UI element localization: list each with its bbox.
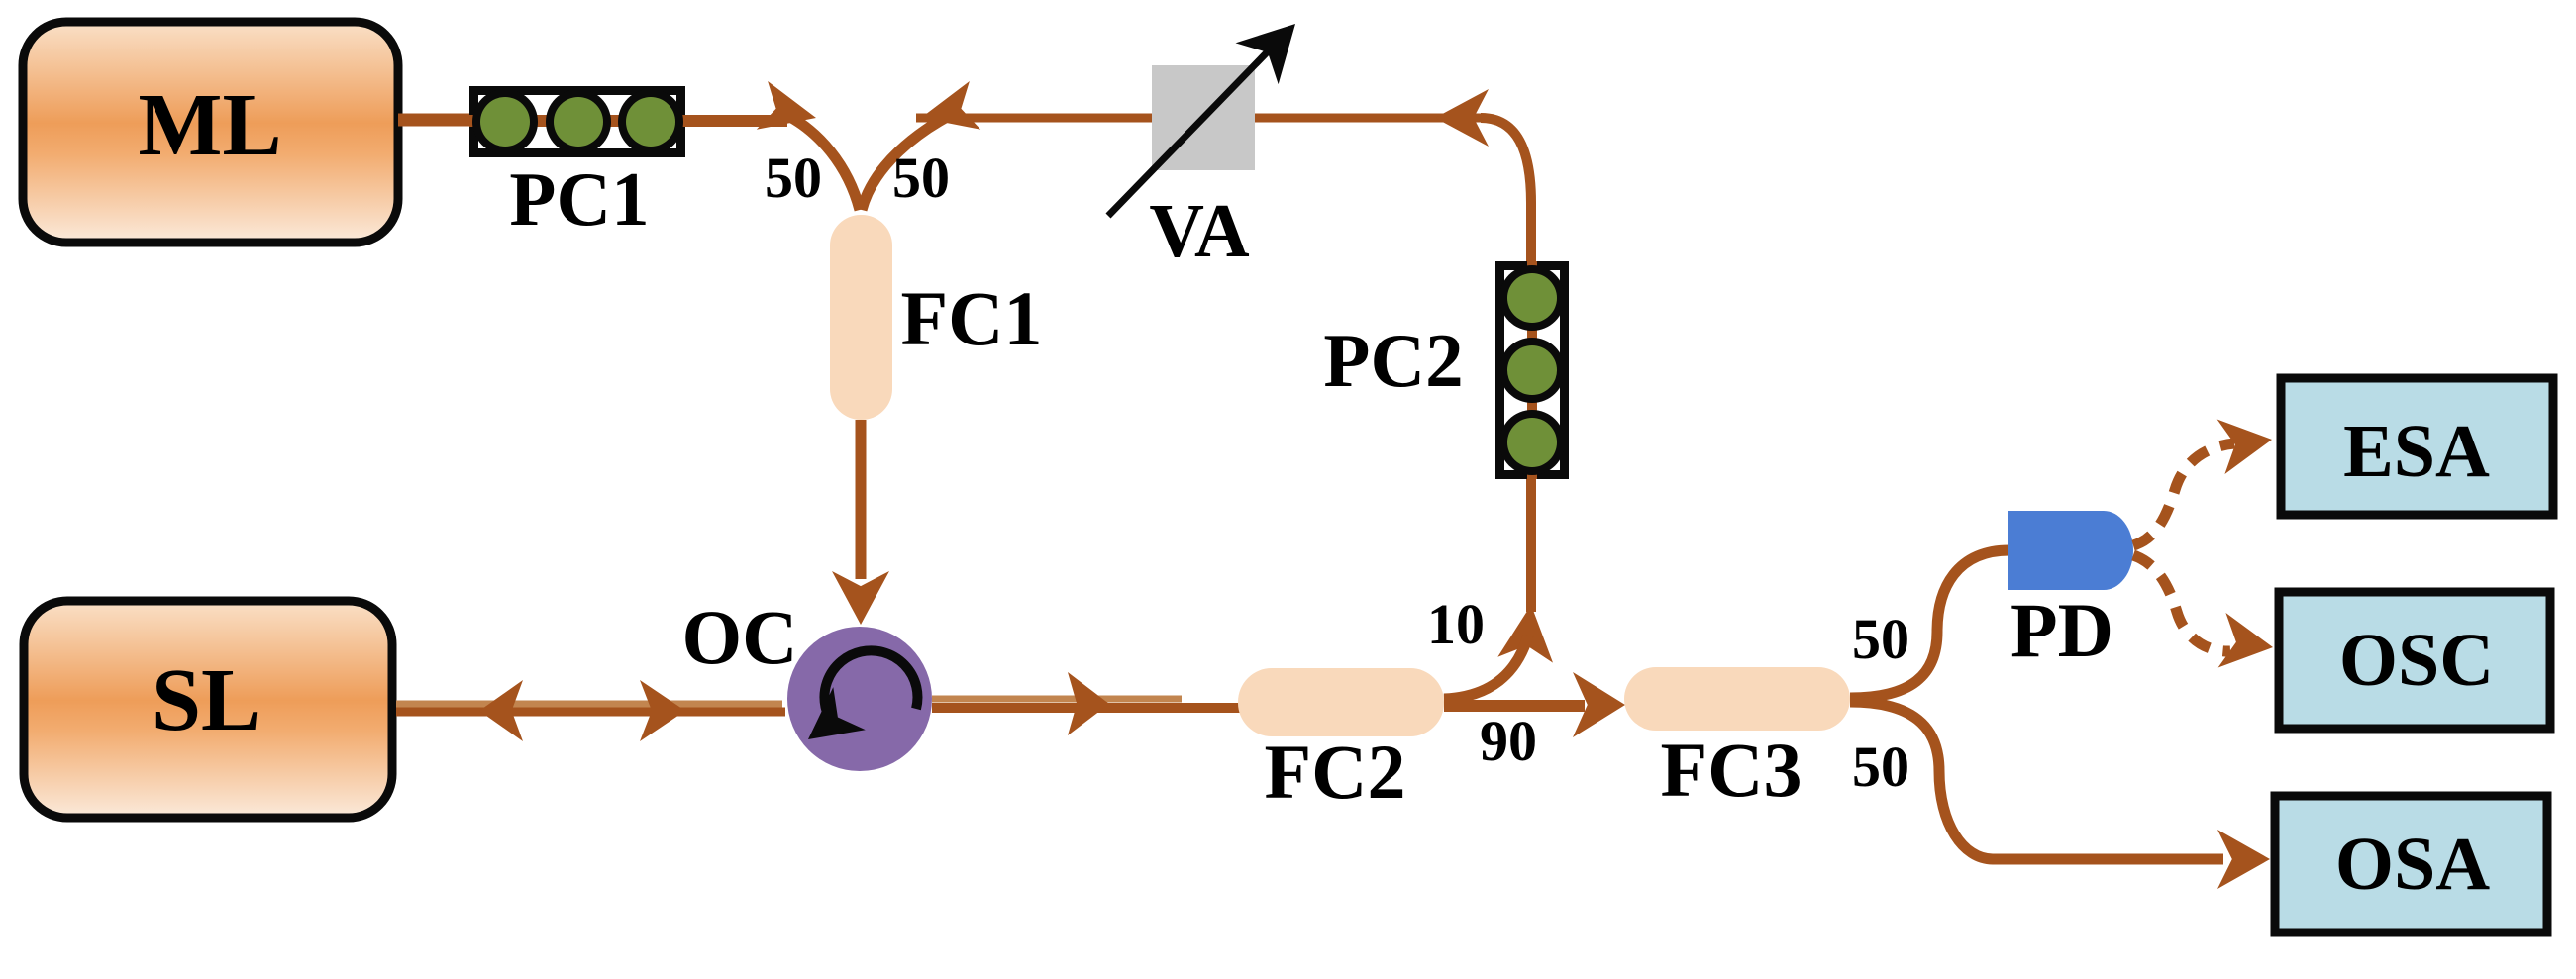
wire: right Y-branch curve into FC1 xyxy=(862,116,949,210)
arrowhead into OSA xyxy=(2217,830,2270,889)
variable attenuator VA xyxy=(1108,24,1295,273)
photodetector PD xyxy=(2008,511,2133,590)
instrument box ESA xyxy=(2281,378,2553,515)
svg-text:SL: SL xyxy=(152,651,260,749)
arrowhead toward SL xyxy=(479,680,523,741)
arrowhead pointing up into PC2 branch xyxy=(1497,605,1553,663)
wire SL to OC (light overlay) xyxy=(396,701,782,708)
svg-text:VA: VA xyxy=(1149,188,1250,273)
wire PC2 down to FC2 branch xyxy=(1526,479,1536,612)
upper 50 branch from FC3 to PD xyxy=(1850,550,2009,698)
polarization controller PC1 xyxy=(469,86,685,242)
optical circulator OC xyxy=(787,627,932,771)
arrowhead into junction (from PC1) xyxy=(757,81,816,130)
svg-text:FC1: FC1 xyxy=(901,275,1043,361)
svg-text:OSA: OSA xyxy=(2335,823,2490,906)
laser box SL xyxy=(24,601,392,818)
wire FC1 down to OC xyxy=(856,420,867,579)
arrowhead into OSC xyxy=(2218,613,2273,668)
wire FC2 to FC3 xyxy=(1444,700,1585,712)
wire ML to PC1 xyxy=(398,114,475,127)
arrowhead toward FC2 xyxy=(1068,672,1109,735)
wire OC to FC2 xyxy=(932,703,1244,713)
svg-text:10: 10 xyxy=(1427,592,1485,656)
arrowhead pointing left toward VA xyxy=(1435,89,1489,147)
wire PC1 to junction xyxy=(685,115,787,127)
svg-text:FC2: FC2 xyxy=(1265,729,1406,815)
instrument box OSA xyxy=(2275,796,2547,932)
svg-text:ML: ML xyxy=(139,76,282,174)
wire curve from top wire down to PC2 xyxy=(1481,118,1531,263)
svg-text:90: 90 xyxy=(1480,709,1537,773)
fiber coupler FC3 xyxy=(1624,667,1850,731)
arrowhead into junction (from VA side) xyxy=(921,81,980,130)
wire: left Y-branch curve into FC1 xyxy=(788,116,860,210)
branch curve from FC2 up xyxy=(1444,636,1528,699)
arrowhead toward OC xyxy=(640,680,685,741)
wire OC to FC2 (light overlay) xyxy=(932,696,1182,703)
arrowhead toward FC3 xyxy=(1573,672,1625,737)
svg-text:PC2: PC2 xyxy=(1323,318,1463,403)
lower 50 branch from FC3 to OSA xyxy=(1850,702,2223,859)
svg-text:50: 50 xyxy=(1852,607,1909,671)
svg-text:PD: PD xyxy=(2010,587,2113,673)
arrowhead down into OC xyxy=(832,571,889,625)
fiber coupler FC1 xyxy=(830,215,892,420)
svg-text:FC3: FC3 xyxy=(1661,727,1803,813)
wire SL to OC xyxy=(396,708,785,717)
svg-text:OC: OC xyxy=(682,594,798,680)
fiber coupler FC2 xyxy=(1238,668,1444,736)
svg-text:OSC: OSC xyxy=(2339,619,2494,702)
dashed wire PD to ESA xyxy=(2133,443,2234,545)
svg-text:50: 50 xyxy=(1852,734,1909,799)
svg-text:ESA: ESA xyxy=(2343,410,2490,493)
svg-text:50: 50 xyxy=(892,146,950,210)
instrument box OSC xyxy=(2279,592,2550,729)
polarization controller PC2 xyxy=(1323,261,1569,479)
svg-text:PC1: PC1 xyxy=(509,156,649,242)
laser box ML xyxy=(23,22,398,243)
top wire through VA xyxy=(916,114,1486,123)
svg-text:50: 50 xyxy=(765,146,822,210)
dashed wire PD to OSC xyxy=(2133,555,2230,651)
arrowhead into ESA xyxy=(2217,420,2272,475)
